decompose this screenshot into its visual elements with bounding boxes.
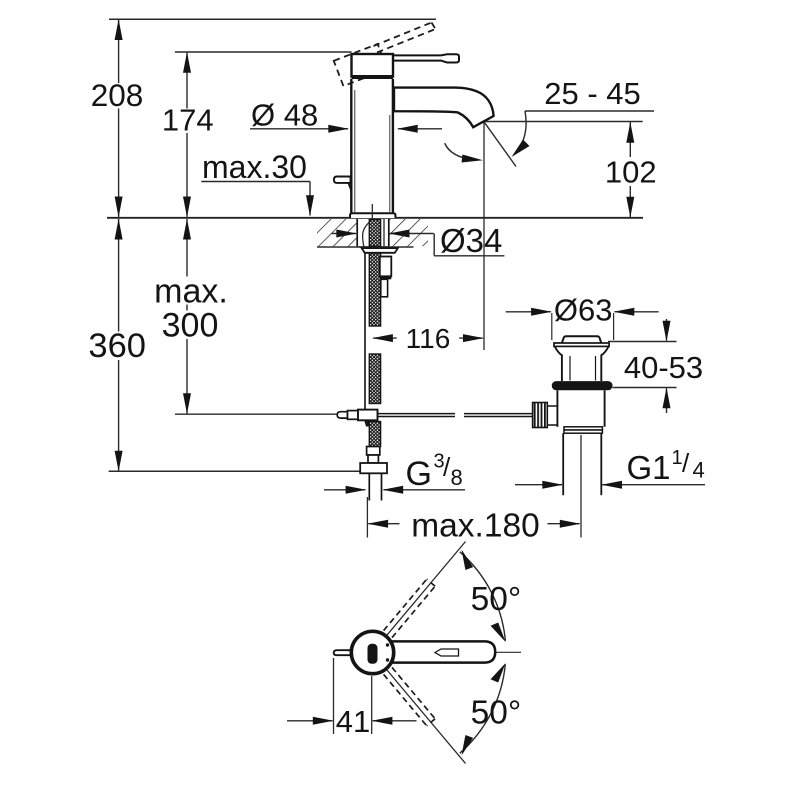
cap black band bbox=[352, 75, 394, 79]
swivel rays 50 degrees bbox=[385, 542, 465, 638]
svg-text:G: G bbox=[406, 455, 432, 493]
angle arc lower bbox=[460, 664, 506, 753]
handle slot bbox=[435, 649, 459, 656]
spout bbox=[394, 88, 494, 128]
pop-up rod (top view) bbox=[334, 650, 351, 655]
svg-text:1: 1 bbox=[672, 447, 683, 469]
svg-text:40-53: 40-53 bbox=[624, 350, 703, 385]
dashed lever (raised position) bbox=[374, 23, 436, 53]
top reference line (handle top level) bbox=[109, 18, 436, 20]
svg-text:max.180: max.180 bbox=[411, 508, 540, 545]
svg-text:/: / bbox=[682, 448, 690, 478]
svg-text:max.30: max.30 bbox=[202, 149, 307, 185]
svg-text:41: 41 bbox=[336, 704, 370, 739]
thread relief rings bbox=[564, 427, 602, 430]
faucet body bbox=[351, 79, 393, 214]
svg-text:Ø 48: Ø 48 bbox=[251, 98, 318, 133]
faucet base escutcheon bbox=[350, 213, 396, 218]
dashed handle rotated down bbox=[384, 667, 436, 725]
angle arc upper bbox=[460, 552, 506, 641]
hose end fitting bbox=[367, 447, 380, 456]
supply pipe bbox=[368, 473, 370, 500]
spout swivel arc arrow bbox=[445, 143, 474, 159]
flange neck bbox=[555, 347, 562, 382]
svg-text:50°: 50° bbox=[471, 695, 522, 732]
handle centerline right bbox=[459, 651, 521, 653]
counter top line bbox=[107, 217, 643, 219]
svg-text:Ø34: Ø34 bbox=[440, 222, 502, 259]
svg-text:50°: 50° bbox=[471, 581, 522, 618]
svg-text:25 - 45: 25 - 45 bbox=[544, 76, 641, 111]
threaded stud beside hose bbox=[380, 257, 392, 277]
knurled adjuster knob bbox=[533, 403, 548, 428]
pop-up rod upper section bbox=[371, 204, 373, 220]
svg-text:max.: max. bbox=[154, 273, 228, 311]
index dots bbox=[386, 643, 389, 646]
svg-text:360: 360 bbox=[88, 327, 146, 365]
dimension 41 bbox=[333, 658, 335, 734]
flange bbox=[554, 343, 609, 346]
svg-text:174: 174 bbox=[162, 103, 214, 138]
deck hole edges bbox=[356, 219, 358, 246]
svg-text:116: 116 bbox=[406, 323, 451, 354]
faucet body circle (top view) bbox=[351, 631, 393, 673]
waste body bbox=[556, 390, 558, 403]
G3/8 coupling nut bbox=[360, 463, 387, 473]
hose-end reference line (360 bottom) bbox=[109, 470, 369, 472]
svg-text:102: 102 bbox=[605, 154, 657, 189]
waste tailpipe bbox=[562, 433, 564, 495]
svg-text:Ø63: Ø63 bbox=[554, 292, 613, 327]
horizontal pop-up rod bbox=[175, 413, 338, 415]
pop-up rod knob on body bbox=[334, 177, 351, 183]
rubber seal ring bbox=[552, 381, 613, 390]
svg-text:4: 4 bbox=[693, 458, 705, 483]
svg-text:G1: G1 bbox=[627, 449, 671, 486]
counter bottom line bbox=[317, 246, 414, 248]
svg-text:8: 8 bbox=[451, 465, 463, 490]
handle (top view) bbox=[388, 641, 495, 662]
cartridge slot bbox=[368, 644, 378, 664]
dashed cap (raised position) bbox=[334, 44, 388, 86]
svg-text:208: 208 bbox=[91, 77, 144, 113]
plug cap bbox=[562, 336, 601, 343]
water stream diagonal line bbox=[485, 123, 517, 167]
dashed handle rotated up bbox=[384, 579, 436, 637]
lever handle (rest position) bbox=[393, 54, 459, 62]
braided hose segments bbox=[369, 220, 380, 447]
cartridge cap bbox=[352, 54, 394, 77]
svg-text:300: 300 bbox=[162, 307, 219, 345]
mounting nut under deck bbox=[362, 248, 398, 253]
pop-up rod vertical bbox=[364, 253, 366, 410]
cap-top reference line (174 level) bbox=[175, 51, 352, 53]
